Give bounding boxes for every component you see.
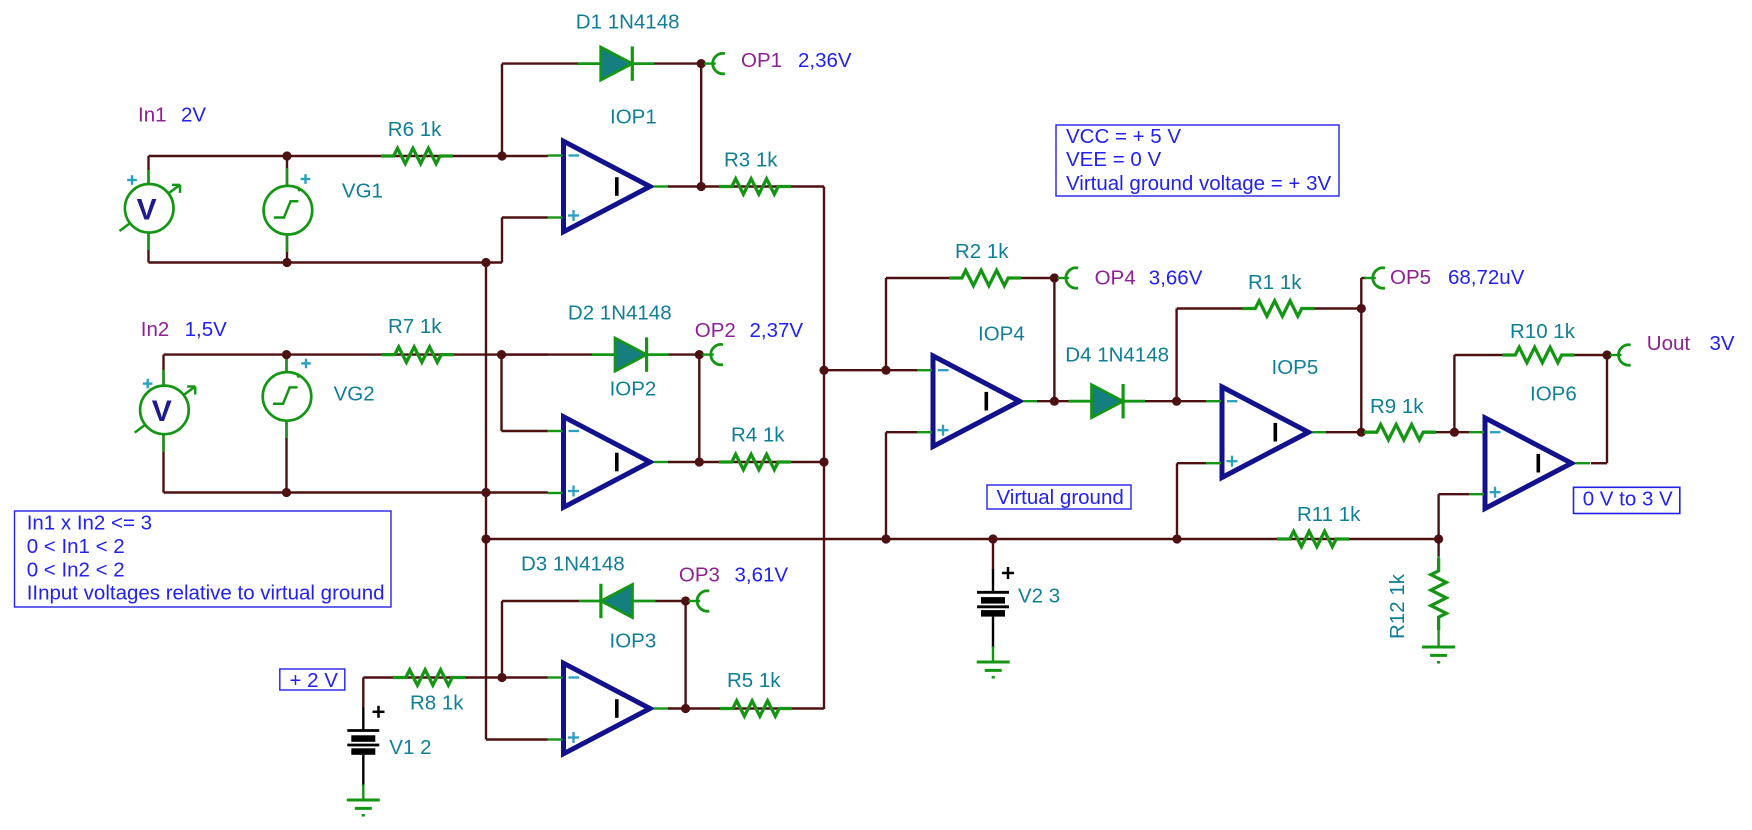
label In2	[141, 318, 170, 341]
label R8 1k	[410, 692, 464, 715]
wire: IOP2 output row	[668, 461, 824, 463]
wire: OP5 node down to IOP5 output row	[1360, 309, 1362, 433]
junction: R1 / OP5 branch	[1357, 304, 1366, 313]
svg-text:IOP2: IOP2	[610, 378, 657, 401]
diode D2	[592, 337, 669, 371]
voltmeter In1 (measures input 1)	[120, 184, 181, 233]
resistor R6	[381, 148, 453, 163]
label D1 1N4148	[576, 11, 680, 34]
wire: summing bus (R3,R4,R5 to IOP4 minus)	[823, 187, 825, 710]
label In1	[138, 103, 167, 126]
label IOP6	[1530, 382, 1577, 405]
label R2 1k	[955, 240, 1009, 263]
resistor R8	[393, 670, 465, 685]
svg-text:2,37V: 2,37V	[750, 319, 804, 342]
wire: IOP3 output row	[668, 707, 824, 709]
source VG1 (controlled generator)	[264, 186, 313, 235]
junction: VG1 bottom	[282, 258, 291, 267]
op-amp IOP3	[548, 663, 669, 754]
label R11 1k	[1297, 503, 1361, 526]
wire: In1 top rail (V1 meter to IOP1 inverting input)	[149, 155, 549, 157]
svg-text:R7 1k: R7 1k	[388, 315, 442, 338]
label IOP4	[978, 323, 1025, 346]
svg-text:R8 1k: R8 1k	[410, 692, 464, 715]
wire: OP4 node to IOP4 output	[1053, 278, 1055, 401]
label V2 3	[1018, 585, 1060, 608]
wire: R2 feedback loop	[886, 278, 1054, 370]
svg-text:R4 1k: R4 1k	[731, 424, 785, 447]
junction: VG1 top	[282, 151, 291, 160]
junction: VG2 bottom	[282, 488, 291, 497]
junction: rail / IOP5 plus	[1172, 534, 1181, 543]
wire: OP5 stub	[1361, 278, 1366, 309]
svg-text:V: V	[152, 395, 172, 428]
junction: rail / IOP4 plus	[881, 534, 890, 543]
svg-text:3,66V: 3,66V	[1149, 266, 1203, 289]
label R7 1k	[388, 315, 442, 338]
label OP3	[679, 563, 720, 586]
label box: Virtual ground	[987, 485, 1131, 509]
junction: VG2 top	[282, 350, 291, 359]
svg-text:VG2: VG2	[334, 383, 375, 406]
svg-text:V1 2: V1 2	[389, 736, 431, 759]
label R10 1k	[1510, 320, 1576, 343]
resistor R3	[719, 179, 791, 194]
output terminal OP3	[689, 591, 710, 611]
wire: R12 top lead	[1437, 539, 1439, 557]
label VG1	[342, 179, 383, 202]
svg-text:R6 1k: R6 1k	[388, 118, 442, 141]
label OP5	[1390, 266, 1431, 289]
svg-text:R10 1k: R10 1k	[1510, 320, 1576, 343]
wire: In2 bottom rail (IOP2 plus row)	[164, 491, 549, 493]
svg-text:Virtual ground: Virtual ground	[997, 486, 1124, 509]
junction: IOP4 output	[1050, 397, 1059, 406]
svg-text:D4 1N4148: D4 1N4148	[1065, 343, 1169, 366]
wire: D3 feedback loop	[502, 601, 686, 678]
op-amp IOP1	[548, 141, 669, 232]
label D3 1N4148	[521, 553, 625, 576]
wire: OP3 node to IOP3 output	[684, 601, 686, 709]
diode D3 (reversed)	[579, 584, 656, 618]
wire: IOP4 output row to D4	[1037, 400, 1077, 402]
svg-text:R1 1k: R1 1k	[1248, 271, 1302, 294]
diode D4	[1069, 384, 1146, 418]
label R4 1k	[731, 424, 785, 447]
output terminal OP2	[702, 344, 723, 364]
junction: rail end / IOP6 plus / R12	[1434, 534, 1443, 543]
svg-text:D1 1N4148: D1 1N4148	[576, 11, 680, 34]
resistor R12	[1431, 556, 1446, 648]
value OP1 2,36V	[798, 49, 852, 72]
svg-text:R11 1k: R11 1k	[1297, 503, 1361, 526]
svg-text:IInput voltages relative to vi: IInput voltages relative to virtual grou…	[27, 582, 385, 605]
value OP4 3,66V	[1149, 266, 1203, 289]
junction: D4 output node	[1172, 397, 1181, 406]
value Uout 3V	[1710, 332, 1735, 355]
junction: summing bus / IOP4 minus branch	[819, 366, 828, 375]
value In1 2V	[181, 103, 206, 126]
svg-text:0 V to 3 V: 0 V to 3 V	[1583, 488, 1673, 511]
label box: 0 V to 3 V	[1574, 487, 1680, 513]
wire: V2 top lead	[992, 539, 994, 570]
wire: VG2 leads	[285, 355, 287, 493]
value OP3 3,61V	[735, 563, 789, 586]
label IOP2	[610, 378, 657, 401]
svg-text:0 < In2 < 2: 0 < In2 < 2	[27, 558, 125, 581]
svg-text:In1 x In2 <= 3: In1 x In2 <= 3	[27, 512, 152, 535]
label In1 polarity +	[127, 175, 137, 185]
value OP5 68,72uV	[1448, 266, 1525, 289]
junction: IOP5 output	[1357, 428, 1366, 437]
ground below V2	[977, 662, 1010, 677]
wire: V meter In1 left leads	[147, 156, 149, 263]
diode D1	[578, 46, 655, 80]
wire: R1 feedback loop	[1177, 309, 1362, 402]
label VG1 polarity +	[301, 174, 311, 184]
svg-text:R5 1k: R5 1k	[727, 669, 781, 692]
resistor R7	[382, 347, 454, 362]
svg-text:68,72uV: 68,72uV	[1448, 266, 1525, 289]
svg-text:IOP6: IOP6	[1530, 382, 1577, 405]
svg-text:VG1: VG1	[342, 179, 383, 202]
svg-text:VCC = + 5 V: VCC = + 5 V	[1066, 125, 1181, 148]
wire: IOP4 plus input from rail	[886, 432, 918, 539]
op-amp IOP5	[1206, 387, 1327, 478]
svg-text:Virtual ground voltage = + 3V: Virtual ground voltage = + 3V	[1066, 172, 1331, 195]
junction: R10 / Uout node	[1602, 350, 1611, 359]
wire: R8 row (+2V to IOP3 minus)	[363, 676, 548, 678]
wire: R9 to IOP6 minus	[1436, 431, 1469, 433]
source VG2 (controlled generator)	[263, 372, 312, 421]
wire: bus from In1 bottom rail to IOP3 plus input	[486, 263, 548, 740]
svg-text:OP3: OP3	[679, 563, 720, 586]
svg-text:2V: 2V	[181, 103, 206, 126]
label D2 1N4148	[568, 302, 672, 325]
wire: OP1 node to IOP1 output	[700, 64, 702, 187]
label Uout	[1647, 332, 1691, 355]
svg-text:In2: In2	[141, 318, 170, 341]
wire: IOP2 minus input feed	[502, 355, 549, 431]
svg-text:D3 1N4148: D3 1N4148	[521, 553, 625, 576]
label R6 1k	[388, 118, 442, 141]
junction: R2 / OP4 node	[1050, 273, 1059, 282]
svg-text:IOP1: IOP1	[610, 105, 657, 128]
junction: R7 output / IOP2 minus branch	[497, 350, 506, 359]
wire: IOP1 output row	[668, 185, 824, 187]
junction: IOP2 output	[695, 457, 704, 466]
junction: summing bus / R4	[819, 457, 828, 466]
label D4 1N4148	[1065, 343, 1169, 366]
wire: IOP5 plus input from rail	[1177, 463, 1207, 539]
label OP2	[695, 319, 736, 342]
svg-text:Uout: Uout	[1647, 332, 1691, 355]
label R3 1k	[724, 148, 778, 171]
svg-text:3,61V: 3,61V	[735, 563, 789, 586]
note box: input constraints	[15, 511, 392, 607]
svg-text:R3 1k: R3 1k	[724, 148, 778, 171]
wire: OP2 node to IOP2 output	[698, 355, 700, 462]
label OP1	[741, 49, 782, 72]
svg-text:R12 1k: R12 1k	[1386, 573, 1409, 639]
svg-text:OP4: OP4	[1095, 266, 1136, 289]
resistor R4	[719, 454, 791, 469]
junction: D3 feedback at minus row	[497, 673, 506, 682]
junction: D1 cathode / OP1 node	[697, 59, 706, 68]
op-amp IOP4	[917, 356, 1038, 447]
junction: IOP1 output	[697, 182, 706, 191]
wire: IOP5 output row	[1326, 431, 1364, 433]
wire: D2 anode wire	[502, 353, 700, 355]
label node + 2 V box	[280, 669, 345, 692]
label VG2 polarity +	[301, 359, 311, 369]
resistor R10	[1503, 347, 1575, 362]
svg-text:In1: In1	[138, 103, 167, 126]
battery V2 (3 V virtual ground source)	[977, 567, 1014, 662]
wire: IOP4 minus row	[824, 369, 918, 371]
op-amp IOP6	[1469, 418, 1590, 509]
op-amp IOP2	[548, 417, 669, 508]
voltmeter In2 (measures input 2)	[135, 386, 196, 435]
output terminal OP5	[1364, 268, 1385, 288]
wire: In1 bottom rail	[149, 261, 503, 263]
wire: R10 feedback loop	[1454, 355, 1607, 432]
junction: bus at In1 bottom rail	[481, 258, 490, 267]
output terminal Uout	[1610, 345, 1631, 365]
ground below V1	[347, 800, 380, 815]
wire: In2 top rail (to R7 and D2)	[164, 353, 549, 355]
junction: R2 feedback at IOP4 minus	[881, 366, 890, 375]
junction: D3 anode / OP3 node	[681, 596, 690, 605]
label OP4	[1095, 266, 1136, 289]
svg-text:R9 1k: R9 1k	[1370, 395, 1424, 418]
resistor R11	[1277, 531, 1349, 546]
resistor R9	[1364, 425, 1436, 440]
junction: R9 / R10 branch	[1450, 428, 1459, 437]
label VG2	[334, 383, 375, 406]
svg-text:IOP4: IOP4	[978, 323, 1025, 346]
svg-text:V: V	[137, 194, 157, 227]
wire: D4 cathode to IOP5 minus	[1145, 400, 1207, 402]
wire: IOP6 plus input from rail	[1439, 494, 1469, 539]
svg-text:OP5: OP5	[1390, 266, 1431, 289]
battery V1 (2 V source)	[347, 706, 384, 801]
svg-text:3V: 3V	[1710, 332, 1735, 355]
svg-text:OP2: OP2	[695, 319, 736, 342]
output terminal OP1	[704, 53, 725, 73]
value In2 1,5V	[185, 318, 227, 341]
junction: D2 cathode / OP2 node	[695, 350, 704, 359]
ground below R12	[1422, 647, 1455, 662]
svg-text:V2 3: V2 3	[1018, 585, 1060, 608]
junction: bus at In2 bottom rail	[481, 488, 490, 497]
output terminal OP4	[1057, 268, 1078, 288]
wire: VG1 leads	[286, 156, 288, 263]
resistor R2	[949, 270, 1021, 285]
svg-text:D2 1N4148: D2 1N4148	[568, 302, 672, 325]
svg-text:R2 1k: R2 1k	[955, 240, 1009, 263]
label R5 1k	[727, 669, 781, 692]
value OP2 2,37V	[750, 319, 804, 342]
svg-text:1,5V: 1,5V	[185, 318, 227, 341]
svg-text:2,36V: 2,36V	[798, 49, 852, 72]
wire: IOP1 plus input from In1 bottom rail	[502, 218, 548, 263]
wire: V meter In2 leads	[162, 355, 164, 493]
label In2 polarity +	[143, 379, 153, 389]
label IOP3	[610, 629, 657, 652]
svg-text:IOP5: IOP5	[1272, 356, 1319, 379]
junction: bus at virtual ground rail	[481, 534, 490, 543]
wire: D1 feedback loop	[502, 64, 701, 156]
label IOP1	[610, 105, 657, 128]
svg-text:OP1: OP1	[741, 49, 782, 72]
wire: V1 top lead	[362, 678, 364, 709]
junction: R6 output / D1 feedback node	[497, 151, 506, 160]
svg-text:+ 2 V: + 2 V	[290, 669, 339, 692]
label R12 1k	[1386, 573, 1409, 639]
wire: Uout node to IOP6 output	[1591, 355, 1607, 463]
svg-text:IOP3: IOP3	[610, 629, 657, 652]
svg-text:VEE = 0 V: VEE = 0 V	[1066, 148, 1161, 171]
label IOP5	[1272, 356, 1319, 379]
resistor R1	[1243, 301, 1315, 316]
label R1 1k	[1248, 271, 1302, 294]
junction: IOP3 output	[681, 704, 690, 713]
wire: virtual ground rail	[486, 538, 1439, 540]
junction: rail / V2	[988, 534, 997, 543]
label V1 2	[389, 736, 431, 759]
note box: supply voltages	[1056, 125, 1339, 196]
label R9 1k	[1370, 395, 1424, 418]
resistor R5	[720, 701, 792, 716]
svg-text:0 < In1 < 2: 0 < In1 < 2	[27, 535, 125, 558]
